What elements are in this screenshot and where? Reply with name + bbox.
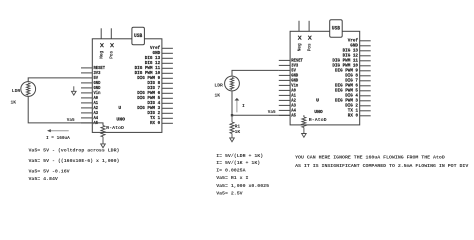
svg-text:Va5: Va5: [67, 117, 75, 123]
svg-text:U: U: [316, 97, 319, 103]
wire LDR2 top to 5V pin: [232, 70, 279, 76]
pin DIG 13 (right 3) U2: [360, 50, 371, 52]
pin TX 1 (right 15) U2: [360, 110, 371, 112]
pin Vref (right 1) U2: [360, 40, 371, 42]
USB connector box U2: [330, 20, 343, 38]
pin DIG PWM 11 (right 5) U2: [360, 60, 371, 62]
svg-text:Va5= 2.5V: Va5= 2.5V: [216, 190, 242, 196]
wire LDR1 bottom to A5 pin (node Va5): [28, 96, 103, 125]
pin RESET (left 1) U1: [81, 67, 92, 69]
svg-text:UNO: UNO: [314, 109, 323, 115]
pin Vin (left 6) U2: [279, 84, 290, 86]
svg-text:Va5= 5V - (voltdrop across LDR: Va5= 5V - (voltdrop across LDR): [29, 148, 120, 154]
ground R-AtoD (left): [101, 144, 106, 148]
pin DIG PWM 5 (right 11) U2: [360, 90, 371, 92]
junction dot node Va5 (right): [231, 114, 233, 116]
svg-text:U: U: [118, 105, 121, 111]
resistor R1 zigzag: [230, 122, 234, 133]
pin DIG 12 (right 4) U1: [162, 62, 173, 64]
pin A5 (left 12) U2: [279, 114, 290, 116]
svg-text:YOU CAN HERE IGNORE THE 160uA: YOU CAN HERE IGNORE THE 160uA FLOWING FR…: [295, 154, 445, 160]
svg-text:I= 0.0025A: I= 0.0025A: [216, 167, 245, 173]
pin A3 (left 10) U2: [279, 104, 290, 106]
pin GND (right 2) U1: [162, 52, 173, 54]
pin DIG PWM 9 (right 7) U1: [162, 77, 173, 79]
svg-text:R1: R1: [235, 123, 241, 129]
ground R-AtoD (right): [302, 134, 307, 138]
current arrow I left-pointing: [50, 130, 69, 132]
pin DIG 2 (right 14) U1: [162, 112, 173, 114]
pin A5 (left 12) U1: [81, 122, 92, 124]
svg-text:LDR: LDR: [214, 83, 223, 89]
svg-text:AS IT IS INSIGNIFICANT COMPARE: AS IT IS INSIGNIFICANT COMPARED TO 2.5mA…: [295, 163, 468, 169]
pin GND (left 4) U1: [81, 82, 92, 84]
svg-text:Va5= 5V - ((160x10E-6) x 1,000: Va5= 5V - ((160x10E-6) x 1,000): [29, 158, 120, 164]
wire node Va5 to R1: [231, 115, 233, 122]
pin 3V3 (left 2) U2: [279, 64, 290, 66]
pin A4 (left 11) U2: [279, 109, 290, 111]
svg-text:USB: USB: [332, 26, 340, 32]
pin DIG PWM 6 (right 10) U2: [360, 85, 371, 87]
svg-text:Va5= 1,000 x0.0025: Va5= 1,000 x0.0025: [216, 183, 269, 189]
pin DIG 13 (right 3) U1: [162, 57, 173, 59]
resistor R-AtoD (right) zigzag: [302, 117, 306, 128]
resistor R-AtoD (left) zigzag: [101, 126, 105, 137]
pin mark X2 U2: [308, 36, 311, 40]
LDR LDR1 zigzag element: [27, 83, 30, 95]
wire LDR1 top to 5V pin: [28, 78, 81, 82]
pin DIG 2 (right 14) U2: [360, 105, 371, 107]
ground R1: [230, 138, 235, 142]
pin 3V3 (left 2) U1: [81, 72, 92, 74]
pin TX 1 (right 15) U1: [162, 117, 173, 119]
svg-text:Pos: Pos: [110, 50, 115, 58]
pin RX 0 (right 16) U2: [360, 115, 371, 117]
svg-text:Pos: Pos: [308, 43, 313, 51]
pin A2 (left 9) U1: [81, 107, 92, 109]
pin DIG PWM 3 (right 13) U1: [162, 107, 173, 109]
wire LDR2 bottom to node Va5 junction: [231, 91, 233, 115]
IC U1 Arduino UNO body: [92, 39, 162, 133]
pin DIG PWM 3 (right 13) U2: [360, 100, 371, 102]
pin Vref (right 1) U1: [162, 47, 173, 49]
pin DIG 7 (right 9) U1: [162, 87, 173, 89]
pin GND (right 2) U2: [360, 45, 371, 47]
LDR LDR2 circle: [225, 76, 240, 91]
pin mark X2 U1: [110, 43, 113, 47]
top pin Neg U2: [298, 21, 300, 31]
pin DIG PWM 10 (right 6) U1: [162, 72, 173, 74]
pin DIG 8 (right 8) U2: [360, 75, 371, 77]
pin DIG 7 (right 9) U2: [360, 80, 371, 82]
LDR LDR1 circle: [21, 82, 36, 97]
svg-text:RX 0: RX 0: [150, 120, 160, 126]
svg-text:I= 5V/(1K + 1K): I= 5V/(1K + 1K): [216, 160, 260, 166]
wire node Va5 to A5 pin (right): [232, 114, 290, 116]
svg-text:R-AtoD: R-AtoD: [106, 125, 124, 131]
wire R-AtoD (left) to ground: [102, 137, 104, 144]
ground symbol near GND pins (left): [73, 86, 75, 91]
svg-text:Va5= 4.84V: Va5= 4.84V: [29, 176, 58, 182]
svg-text:Va5: Va5: [268, 109, 276, 115]
pin A3 (left 10) U1: [81, 112, 92, 114]
pin GND (left 5) U2: [279, 79, 290, 81]
pin 5V (left 3) U1: [81, 77, 92, 79]
svg-text:Va5= 5V -0.16V: Va5= 5V -0.16V: [29, 169, 70, 175]
svg-text:Neg: Neg: [297, 43, 302, 51]
pin DIG 4 (right 12) U2: [360, 95, 371, 97]
svg-text:1K: 1K: [215, 92, 221, 98]
wire A5 node to R-AtoD (right): [303, 115, 305, 117]
pin A1 (left 8) U1: [81, 102, 92, 104]
wire R1 to ground: [231, 134, 233, 138]
top pin Neg U1: [100, 28, 102, 38]
wire R-AtoD (right) to ground: [303, 128, 305, 134]
svg-text:I= 5V/(LDR + 1K): I= 5V/(LDR + 1K): [216, 153, 263, 159]
svg-text:RX 0: RX 0: [348, 113, 358, 119]
svg-text:LDR: LDR: [12, 88, 21, 94]
pin DIG 8 (right 8) U1: [162, 82, 173, 84]
pin A4 (left 11) U1: [81, 117, 92, 119]
pin DIG PWM 11 (right 5) U1: [162, 67, 173, 69]
svg-text:1K: 1K: [235, 129, 241, 135]
svg-text:Va5= R1 x I: Va5= R1 x I: [216, 175, 248, 181]
svg-text:I = 160uA: I = 160uA: [46, 136, 70, 141]
pin DIG 4 (right 12) U1: [162, 102, 173, 104]
pin A2 (left 9) U2: [279, 99, 290, 101]
svg-text:1K: 1K: [10, 100, 16, 106]
pin A0 (left 7) U1: [81, 97, 92, 99]
pin GND (left 4) U2: [279, 74, 290, 76]
pin DIG 12 (right 4) U2: [360, 55, 371, 57]
pin DIG PWM 9 (right 7) U2: [360, 70, 371, 72]
svg-text:Neg: Neg: [100, 50, 105, 58]
pin A1 (left 8) U2: [279, 94, 290, 96]
pin GND (left 5) U1: [81, 87, 92, 89]
svg-text:R-AtoD: R-AtoD: [309, 117, 327, 123]
pin 5V (left 3) U2: [279, 69, 290, 71]
pin A0 (left 7) U2: [279, 89, 290, 91]
pin mark X1 U1: [100, 43, 103, 47]
LDR LDR2 zigzag element: [230, 78, 233, 90]
pin Vin (left 6) U1: [81, 92, 92, 94]
pin RESET (left 1) U2: [279, 59, 290, 61]
pin DIG PWM 10 (right 6) U2: [360, 65, 371, 67]
pin RX 0 (right 16) U1: [162, 122, 173, 124]
pin mark X1 U2: [298, 36, 301, 40]
pin DIG PWM 5 (right 11) U1: [162, 97, 173, 99]
top pin Pos U2: [308, 21, 310, 31]
svg-text:UNO: UNO: [116, 117, 125, 123]
IC U2 Arduino UNO body: [290, 31, 360, 125]
top pin Pos U1: [110, 28, 112, 38]
USB connector box U1: [132, 27, 145, 45]
pin DIG PWM 6 (right 10) U1: [162, 92, 173, 94]
svg-text:A5: A5: [291, 112, 296, 118]
svg-text:USB: USB: [134, 33, 142, 39]
svg-text:I: I: [242, 103, 245, 109]
current arrow I up-pointing: [236, 100, 238, 112]
